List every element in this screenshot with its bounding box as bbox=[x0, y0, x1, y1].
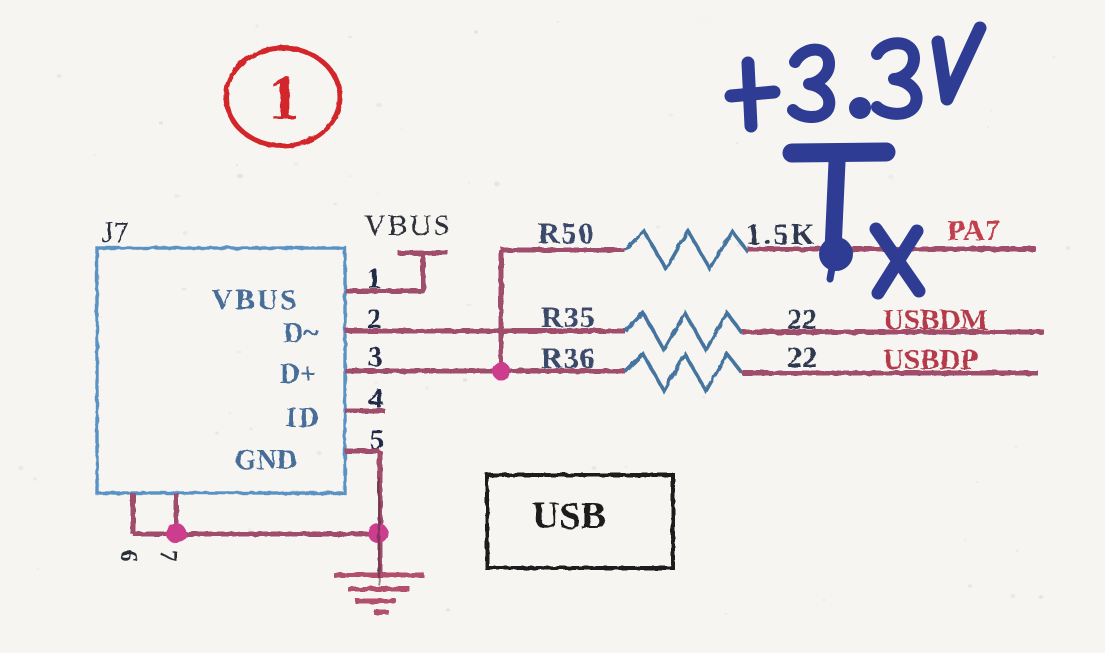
wire R50 vertical from D+ node bbox=[499, 250, 504, 371]
svg-text:6: 6 bbox=[115, 550, 141, 562]
resistor R50 bbox=[625, 231, 748, 269]
wire pin5 vertical to ground bbox=[378, 451, 383, 575]
letter V bbox=[938, 28, 980, 99]
svg-text:VBUS: VBUS bbox=[364, 209, 452, 242]
wire pin1 stub bbox=[345, 289, 425, 294]
svg-text:J7: J7 bbox=[102, 216, 129, 249]
svg-text:GND: GND bbox=[235, 445, 297, 476]
wire pin5 stub bbox=[345, 449, 380, 454]
decimal point bbox=[849, 97, 871, 119]
wire VBUS tap stem bbox=[421, 253, 426, 291]
resistor R36 bbox=[625, 354, 742, 391]
wire R50 horizontal bbox=[501, 248, 625, 253]
ground symbol bbox=[334, 575, 424, 612]
wire shield stub left bbox=[131, 493, 136, 534]
ground dark core bbox=[378, 478, 381, 585]
power tap stem bbox=[833, 162, 837, 250]
junction ground bbox=[368, 523, 388, 543]
X mark stroke 1 bbox=[876, 229, 919, 291]
wire USBDP bbox=[742, 371, 1038, 376]
USB caption box bbox=[487, 475, 673, 568]
ink blob bbox=[819, 237, 853, 271]
svg-text:USBDP: USBDP bbox=[883, 344, 978, 376]
wire VBUS tap bar bbox=[398, 251, 448, 256]
handwritten annotation +3.3V bbox=[731, 28, 980, 293]
resistor R35 bbox=[625, 313, 742, 350]
svg-text:3: 3 bbox=[368, 341, 383, 373]
svg-text:USB: USB bbox=[532, 495, 606, 537]
wire pin2 to R35 bbox=[345, 329, 625, 334]
svg-text:PA7: PA7 bbox=[947, 214, 1000, 247]
digit 3 first bbox=[793, 50, 829, 117]
svg-text:1: 1 bbox=[268, 63, 300, 133]
plus sign bbox=[748, 63, 751, 126]
svg-text:D+: D+ bbox=[280, 359, 316, 390]
svg-text:R35: R35 bbox=[541, 301, 596, 334]
wire USBDM bbox=[742, 330, 1044, 335]
wire pin3 to R36 bbox=[345, 369, 625, 374]
svg-text:R50: R50 bbox=[538, 217, 596, 250]
connector J7 body bbox=[97, 248, 345, 493]
svg-text:ID: ID bbox=[286, 403, 321, 434]
svg-text:1.5K: 1.5K bbox=[746, 218, 817, 251]
wire pin4 stub bbox=[345, 409, 385, 414]
wire shield stub right bbox=[174, 493, 179, 533]
svg-text:D~: D~ bbox=[283, 318, 318, 349]
svg-text:R36: R36 bbox=[541, 342, 596, 375]
svg-text:USBDM: USBDM bbox=[883, 304, 988, 336]
wire PA7 bbox=[748, 247, 1036, 252]
digit 3 second bbox=[877, 43, 917, 114]
power tap bar bbox=[792, 152, 886, 153]
junction shield left bbox=[166, 523, 186, 543]
svg-text:22: 22 bbox=[787, 341, 817, 374]
svg-text:7: 7 bbox=[155, 550, 181, 562]
svg-text:VBUS: VBUS bbox=[212, 284, 299, 316]
wire shield horizontal bbox=[133, 532, 380, 537]
X mark stroke 2 bbox=[878, 231, 917, 293]
callout circle 1 bbox=[226, 48, 340, 146]
junction node D+ bbox=[492, 362, 510, 380]
ink drip bbox=[830, 268, 832, 279]
